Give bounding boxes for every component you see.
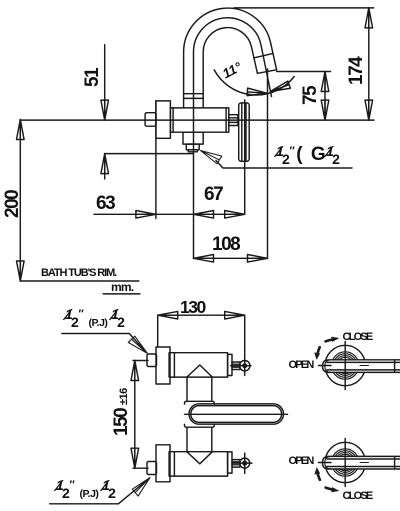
bottom nipple xyxy=(232,460,240,468)
spout gooseneck center axis xyxy=(193,18,271,259)
dimension 174 extension line (top) xyxy=(234,7,374,9)
dimension 75 line xyxy=(324,72,326,121)
spout nozzle bottom face xyxy=(257,70,276,74)
label 150 +-16 xyxy=(111,388,133,436)
top nipple xyxy=(232,362,240,370)
label bottom PJ xyxy=(57,479,116,500)
spout base boss lines xyxy=(184,94,204,99)
dimension 108 line xyxy=(194,257,268,259)
dimension 63/67 line xyxy=(94,213,245,215)
label 51 xyxy=(82,69,104,87)
bottom lever bar xyxy=(323,456,400,469)
top inlet body xyxy=(169,353,228,377)
label 200 xyxy=(2,191,24,218)
top gesture arrow to OPEN xyxy=(318,347,320,354)
dimension 200 line xyxy=(19,120,21,282)
label mm xyxy=(111,280,133,294)
collars at spout joint xyxy=(185,401,215,404)
11 degree annotation arc xyxy=(214,70,294,95)
escutcheon flange xyxy=(156,101,171,138)
top inlet nut centerline xyxy=(133,360,148,362)
bottom inlet escutcheon xyxy=(156,445,170,482)
label 11deg xyxy=(220,59,244,81)
bottom handle escutcheon circle xyxy=(325,442,365,482)
top inlet escutcheon xyxy=(156,347,170,384)
aux line outlet bottom level xyxy=(105,153,193,155)
bottom handle hub rings xyxy=(332,449,359,476)
top gesture arrow to CLOSE xyxy=(326,339,333,341)
capsule centerline xyxy=(185,413,288,415)
label 130 xyxy=(180,297,205,318)
dimension 130 line xyxy=(158,314,245,316)
top transition chevron xyxy=(187,365,213,377)
bottom gesture arrow to OPEN xyxy=(318,473,320,480)
top check valve reducer xyxy=(228,354,232,375)
spout gooseneck outer edge xyxy=(184,8,277,108)
bottom transition chevron xyxy=(187,452,213,464)
label BATH TUB'S RIM xyxy=(41,267,116,279)
leader bottom PJ label xyxy=(50,478,150,504)
valve body (side view) xyxy=(170,108,228,132)
spout gooseneck inner edge xyxy=(203,28,257,108)
extension line through lever xyxy=(244,100,246,214)
bottom gesture arrow to CLOSE xyxy=(326,488,333,490)
outlet below body xyxy=(183,132,203,144)
dimension 51 line xyxy=(104,45,106,120)
bottom inlet body xyxy=(169,452,228,476)
extension line from escutcheon xyxy=(155,101,157,219)
dimension 150 line xyxy=(134,361,136,469)
cartridge cap xyxy=(145,113,156,127)
label 67 xyxy=(204,184,222,206)
top handle hub rings xyxy=(332,352,359,379)
label top PJ xyxy=(66,308,125,329)
mm underline xyxy=(103,293,140,295)
dimension 174 line xyxy=(368,8,370,120)
label CLOSE top xyxy=(343,331,372,343)
spout capsule inner xyxy=(191,406,282,423)
bottom handle crosshair xyxy=(344,439,346,487)
bottom inlet nut centerline xyxy=(133,467,148,469)
handle stem (right) xyxy=(229,115,238,126)
extension 130 right / circle axis xyxy=(244,315,246,375)
11 degree arrowheads xyxy=(247,88,267,97)
bath tub rim line xyxy=(20,280,139,282)
label G half xyxy=(277,144,340,166)
vertical pipe column xyxy=(186,377,188,401)
extension line from nozzle tip xyxy=(267,69,269,259)
top handle crosshair xyxy=(344,342,346,390)
bottom inlet hex nut xyxy=(147,462,157,475)
bottom check valve circle xyxy=(240,458,250,468)
label 63 xyxy=(96,193,114,215)
aerator xyxy=(186,144,199,150)
top lever bar xyxy=(323,360,400,373)
top check valve circle xyxy=(240,361,250,371)
spout capsule outer xyxy=(189,404,284,424)
extension 130 left xyxy=(157,315,159,347)
leader to aerator (G1/2) xyxy=(216,161,352,169)
label OPEN bottom xyxy=(289,455,313,467)
top handle escutcheon circle xyxy=(325,345,365,385)
lever handle edge-on xyxy=(239,103,250,161)
label CLOSE bottom xyxy=(343,490,372,502)
wire: main horizontal centerline xyxy=(20,119,374,121)
top inlet: hex nut xyxy=(147,354,157,367)
leader top PJ label xyxy=(62,334,147,353)
dimension 75 extension line xyxy=(277,71,331,73)
spout nozzle joint line xyxy=(254,53,273,58)
label 75 xyxy=(300,86,322,104)
bottom check valve reducer xyxy=(228,452,232,473)
label 174 xyxy=(346,58,368,85)
label 108 xyxy=(212,234,239,256)
label OPEN top xyxy=(289,359,313,371)
